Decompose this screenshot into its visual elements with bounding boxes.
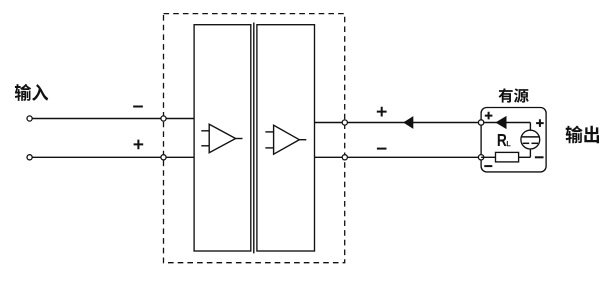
DC source BT1 (circle with DC symbol) <box>521 130 540 149</box>
label − (load bottom-left) <box>484 165 492 167</box>
label 有源 (active) <box>499 88 529 102</box>
label + (output polarity) <box>377 107 387 117</box>
wire: − output to enclosure edge <box>315 156 345 158</box>
label − (source negative) <box>535 156 544 158</box>
terminal: load + (open circle on box edge) <box>478 120 483 125</box>
active load box <box>481 108 546 172</box>
dashed enclosure (isolation transmitter) <box>164 14 345 263</box>
node: + output on enclosure edge <box>342 120 347 125</box>
arrow: current direction on + lead <box>403 116 413 129</box>
wire: − output lead to load <box>347 156 478 158</box>
wire: + output lead to load <box>347 122 478 124</box>
input terminal TP1 (− input, open circle) <box>27 116 32 121</box>
arrow: current direction inside load <box>495 116 506 129</box>
wire: + output to enclosure edge <box>315 122 345 124</box>
wire: + lead into module <box>164 156 195 158</box>
isolation barrier line <box>253 23 255 254</box>
label + (input polarity) <box>134 140 144 150</box>
node: − input on enclosure edge <box>161 116 166 121</box>
wire: resistor to source bottom <box>519 156 531 158</box>
op-amp A1 <box>201 124 242 153</box>
label − (input polarity) <box>133 106 143 108</box>
node: − output on enclosure edge <box>342 155 347 160</box>
module 2 box (output amplifier stage) <box>257 25 315 251</box>
label + (source positive) <box>536 119 544 127</box>
label RL <box>498 134 511 146</box>
label 输入 (input) <box>15 84 48 101</box>
resistor RL (box symbol) <box>496 152 519 162</box>
wire: − lead into module <box>164 118 195 120</box>
module 1 box (input amplifier stage) <box>194 25 251 251</box>
label 输出 (output) <box>566 126 599 144</box>
terminal: load − (open circle on box edge) <box>478 155 483 160</box>
node: + input on enclosure edge <box>161 155 166 160</box>
op-amp A2 <box>265 125 306 154</box>
wire: drop to source top <box>529 123 531 131</box>
wire: + input lead <box>32 156 161 158</box>
label + (load top-left) <box>485 112 493 120</box>
wire: rise to source bottom <box>529 149 531 157</box>
wire: load internal top <box>481 122 530 124</box>
wire: − input lead <box>32 118 161 120</box>
wire: load internal bottom left <box>481 156 495 158</box>
input terminal TP2 (+ input, open circle) <box>27 155 32 160</box>
label − (output polarity) <box>377 148 387 150</box>
